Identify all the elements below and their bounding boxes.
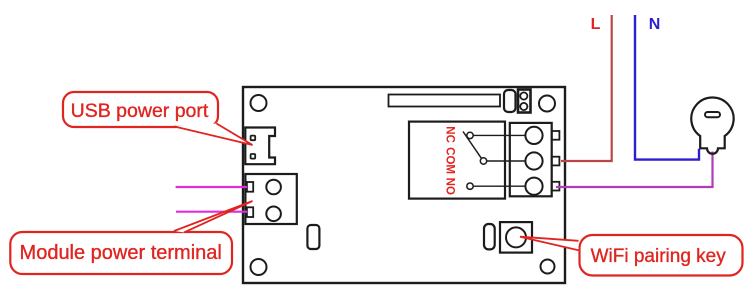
svg-text:USB power port: USB power port [71,100,209,122]
svg-text:COM: COM [443,147,455,174]
relay switch blade [463,132,481,159]
callout wifi pointer [520,237,579,251]
wire NO to lamp (magenta) [556,152,713,188]
wire N neutral (blue) [635,15,699,160]
module power wire 1 (magenta) [176,186,247,188]
lamp filament slot [705,112,720,117]
USB pin pad 1 [251,136,256,141]
mounting hole top-left [251,95,267,111]
mounting hole bottom-right [541,260,555,274]
module power wire 2 (magenta) [176,211,247,213]
wifi pairing button cap [506,227,526,247]
wifi pairing button housing [500,222,532,253]
relay NO contact [467,183,473,189]
callout USB power port box [63,92,218,127]
svg-text:NO: NO [443,178,455,195]
relay NC contact [467,132,473,138]
callout wifi pairing key box [580,235,743,276]
output terminal tab COM [552,157,560,166]
power terminal screw 2 [266,207,281,222]
svg-text:NC: NC [443,126,455,143]
output terminal screw NO [525,178,542,195]
svg-text:N: N [649,16,661,33]
USB power port connector [245,128,275,165]
lamp bulb [691,97,733,153]
relay COM contact [480,158,486,164]
svg-text:L: L [591,16,601,33]
antenna slot [389,95,501,107]
PCB board outline [243,87,565,283]
power terminal pin tab 1 [247,182,253,192]
small component stadium below power terminal [307,225,319,249]
output terminal screw NC [525,127,542,144]
svg-text:WiFi pairing key: WiFi pairing key [591,246,727,267]
wire COM to terminal [487,160,526,162]
mounting hole bottom-left [251,259,267,275]
output terminal block [510,123,552,196]
pin header hole 2 [520,103,527,110]
relay body [409,122,505,199]
power terminal pin tab 2 [247,207,253,217]
stadium component left of button [484,224,495,249]
module power terminal block [245,174,296,224]
pin header hole 1 [520,92,527,99]
mounting hole top-right [539,96,555,112]
svg-text:Module power terminal: Module power terminal [20,242,222,264]
component stadium near antenna [504,90,516,112]
power terminal screw 1 [266,180,281,195]
wire L live (red) [561,15,612,161]
wire NC to terminal [473,134,525,136]
output terminal screw COM [525,152,542,169]
pin header box [518,90,531,113]
callout module power terminal box [10,232,232,274]
callout module power pointer [174,201,253,232]
USB pin pad 2 [251,154,256,159]
output terminal tab NC [552,131,560,140]
callout USB pointer [174,124,253,146]
output terminal tab NO [552,182,560,191]
wire NO to terminal [473,185,525,187]
